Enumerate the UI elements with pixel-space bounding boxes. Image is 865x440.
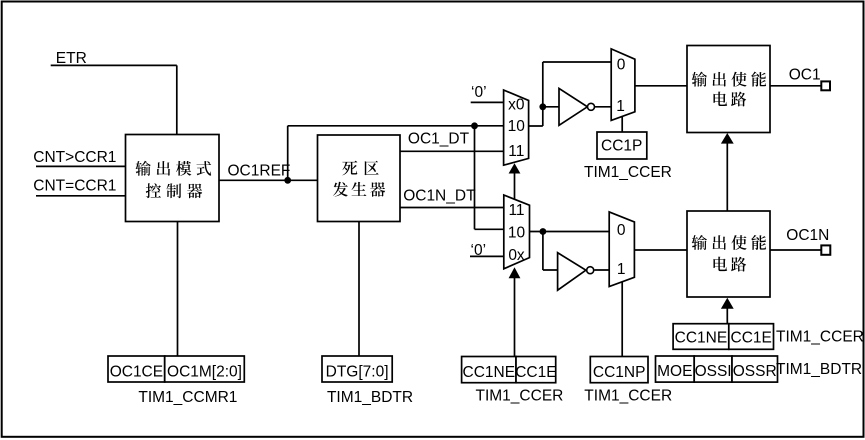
svg-text:‘0’: ‘0’: [471, 84, 487, 101]
svg-text:OC1REF: OC1REF: [228, 163, 291, 180]
svg-text:CC1E: CC1E: [731, 329, 772, 346]
svg-text:OC1CE: OC1CE: [110, 363, 163, 380]
svg-text:CC1NE: CC1NE: [463, 364, 516, 381]
svg-text:CC1NE: CC1NE: [675, 329, 728, 346]
svg-text:OC1_DT: OC1_DT: [408, 130, 470, 147]
svg-text:TIM1_BDTR: TIM1_BDTR: [327, 389, 413, 406]
svg-text:11: 11: [508, 202, 524, 219]
svg-text:OC1M[2:0]: OC1M[2:0]: [167, 363, 242, 380]
svg-text:TIM1_CCER: TIM1_CCER: [476, 387, 564, 404]
svg-text:CNT=CCR1: CNT=CCR1: [33, 178, 116, 195]
svg-text:11: 11: [508, 143, 524, 160]
svg-text:OC1N_DT: OC1N_DT: [403, 188, 476, 205]
svg-text:1: 1: [616, 98, 625, 115]
svg-text:10: 10: [508, 224, 526, 241]
svg-text:MOE: MOE: [657, 363, 692, 380]
svg-text:TIM1_CCER: TIM1_CCER: [584, 164, 672, 181]
svg-text:CC1E: CC1E: [515, 364, 556, 381]
svg-text:0: 0: [617, 222, 626, 239]
svg-text:OSSI: OSSI: [695, 363, 732, 380]
svg-text:CC1P: CC1P: [601, 137, 642, 154]
svg-text:CC1NP: CC1NP: [593, 364, 646, 381]
svg-text:0: 0: [617, 57, 626, 74]
svg-text:ETR: ETR: [56, 50, 87, 67]
svg-text:10: 10: [508, 118, 526, 135]
svg-text:OC1N: OC1N: [786, 227, 829, 244]
svg-text:x0: x0: [508, 97, 525, 114]
svg-text:0x: 0x: [508, 247, 525, 264]
svg-text:DTG[7:0]: DTG[7:0]: [326, 363, 389, 380]
svg-text:TIM1_CCER: TIM1_CCER: [776, 329, 864, 346]
svg-text:1: 1: [617, 261, 626, 278]
svg-text:OSSR: OSSR: [733, 363, 777, 380]
svg-text:OC1: OC1: [789, 67, 821, 84]
svg-text:TIM1_CCER: TIM1_CCER: [584, 387, 672, 404]
svg-text:‘0’: ‘0’: [471, 242, 487, 259]
svg-text:TIM1_CCMR1: TIM1_CCMR1: [138, 389, 237, 406]
svg-text:CNT>CCR1: CNT>CCR1: [33, 149, 116, 166]
svg-text:TIM1_BDTR: TIM1_BDTR: [776, 361, 862, 378]
